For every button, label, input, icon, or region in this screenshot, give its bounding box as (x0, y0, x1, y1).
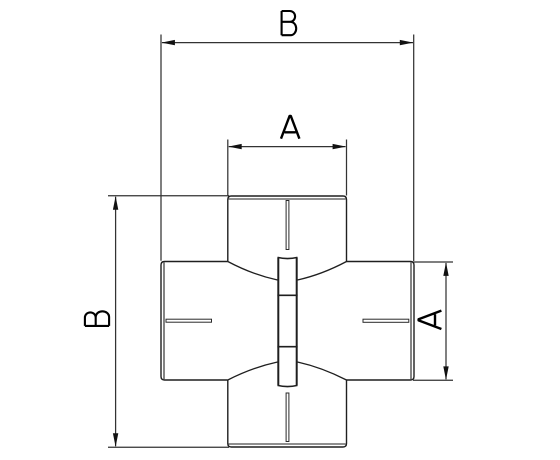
wire right A extension line bottom (413, 379, 453, 381)
wire left B extension line top (108, 195, 229, 197)
node left B arrow top (113, 196, 118, 210)
wire body taper bottom-left (228, 362, 278, 380)
wire top B dimension line (162, 42, 413, 44)
wire left B extension line bottom (108, 446, 229, 448)
wire right A dimension line (445, 263, 447, 379)
node union nut body (278, 257, 298, 386)
wire right A extension line top (413, 261, 453, 263)
wire left B dimension line (115, 197, 117, 446)
node label A top (281, 116, 299, 139)
wire top A extension line left (227, 140, 229, 196)
node fitting body: top socket (228, 196, 347, 262)
wire union nut band line lower (277, 346, 297, 348)
wire body taper bottom-right (298, 362, 347, 380)
node fitting body: right socket (347, 262, 415, 381)
node label B left (85, 311, 109, 326)
wire top B extension line left (160, 35, 162, 261)
wire top A dimension line (229, 146, 346, 148)
node label A right (419, 311, 442, 329)
wire top socket inner face line (229, 198, 346, 200)
wire union nut band line upper (277, 294, 297, 296)
wire top B extension line right (413, 35, 415, 262)
node top A arrow left (228, 144, 242, 149)
wire body taper top-left (228, 262, 278, 281)
node center tick bottom socket (286, 393, 289, 442)
wire body taper top-right (298, 262, 347, 281)
node top B arrow left (161, 40, 175, 45)
wire top A extension line right (346, 140, 348, 196)
node center tick right socket (363, 319, 409, 322)
wire bottom socket inner face line (229, 443, 346, 445)
node fitting body: bottom socket (228, 380, 347, 447)
wire left socket inner face line (163, 262, 165, 379)
node label B top (282, 11, 297, 35)
node right A arrow top (443, 262, 448, 276)
node fitting body: left socket (161, 262, 228, 381)
wire right socket inner face line (410, 262, 412, 379)
node right A arrow bottom (443, 366, 448, 380)
node left B arrow bottom (113, 433, 118, 447)
node center tick top socket (286, 201, 289, 250)
node top B arrow right (400, 40, 414, 45)
node center tick left socket (166, 319, 212, 322)
node top A arrow right (333, 144, 347, 149)
